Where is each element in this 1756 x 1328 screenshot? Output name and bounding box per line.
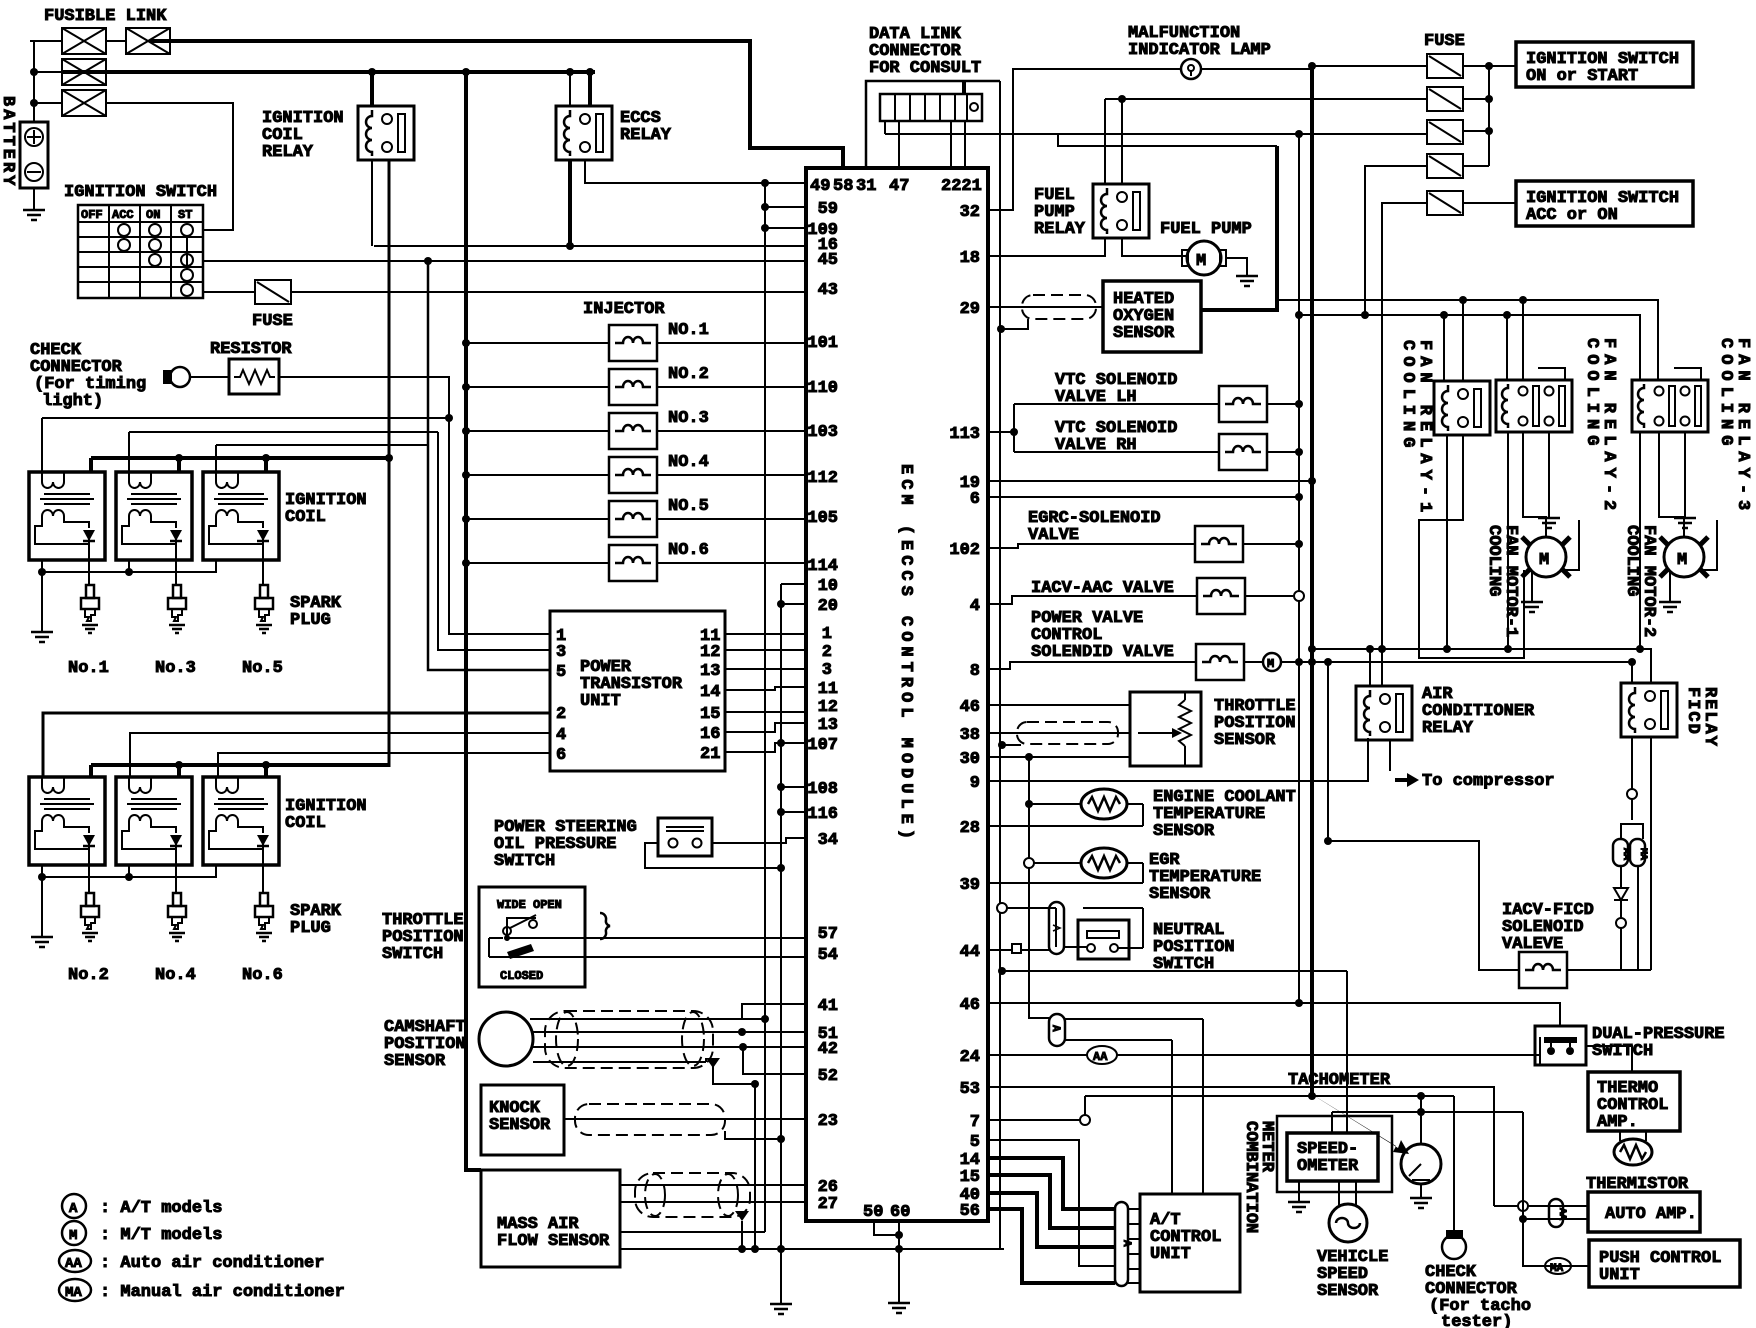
junction dots y1249 [738, 1245, 746, 1253]
VTC solenoid valve RH [1219, 434, 1267, 470]
FICD contact top from y649 [1650, 649, 1652, 683]
IACV-AAC valve [1197, 578, 1245, 614]
svg-text:4: 4 [970, 597, 980, 616]
drops from y300 [1463, 300, 1523, 381]
FICD contact bottom long [1650, 737, 1652, 970]
svg-text:112: 112 [807, 469, 838, 488]
junction coolant [1025, 800, 1033, 808]
tachometer pointer arrow [1300, 1087, 1409, 1154]
air conditioner relay [1356, 686, 1412, 740]
thermistor [1614, 1139, 1652, 1165]
svg-text:59: 59 [818, 200, 838, 219]
CF2 contact2 ground [1548, 432, 1550, 516]
x1328 riser [1327, 662, 1329, 841]
wire y300 bus [1277, 300, 1658, 381]
svg-text:24: 24 [960, 1048, 980, 1067]
split to AA/MA ovals [1621, 799, 1643, 839]
vertical x1312 bus [1310, 66, 1314, 1096]
svg-text:WIDE OPEN: WIDE OPEN [497, 898, 562, 912]
spark plug No.3 [168, 585, 186, 633]
DPS right to thermo amp [1586, 1046, 1632, 1072]
junction PS ground [777, 864, 785, 872]
junction dots injector feeds [462, 339, 470, 347]
wire y1112 speedo-thermo [1332, 1112, 1523, 1133]
svg-text:BATTERY: BATTERY [0, 96, 17, 188]
camshaft shield drain [533, 1058, 755, 1084]
wire y662 to FICD coil [1312, 661, 1632, 663]
svg-text:2: 2 [822, 643, 832, 662]
svg-text:No.3: No.3 [155, 659, 196, 678]
legend M circle [62, 1221, 86, 1245]
CF2 right loop [1538, 368, 1565, 380]
wire ECM 6 [988, 496, 1299, 498]
svg-text:7: 7 [970, 1113, 980, 1132]
wire O2 right loop up to y146 line [1201, 146, 1277, 310]
junction [1519, 1215, 1527, 1223]
cooling fan relay-3 [1632, 380, 1708, 432]
junction EGRC right [1295, 540, 1303, 548]
wire flink row1 to row2 gap [106, 40, 126, 42]
camshaft position sensor circle [479, 1012, 533, 1066]
dual-pressure switch box [1535, 1026, 1586, 1065]
malfunction indicator lamp [1181, 59, 1201, 79]
wire resistor node to PTU pin1 [449, 418, 550, 634]
shield drain triangle [706, 1058, 720, 1068]
svg-text:113: 113 [949, 425, 980, 444]
wire ECCS relay coil bottom down [568, 160, 572, 246]
svg-text:A: A [69, 1201, 78, 1217]
legend MA oval [59, 1279, 91, 1301]
CF3 contact2 ground [1684, 432, 1686, 516]
svg-text:OMETER: OMETER [1297, 1157, 1359, 1176]
svg-text:M: M [69, 1228, 77, 1244]
ground row1 coils [31, 630, 53, 642]
svg-text:47: 47 [889, 177, 909, 196]
svg-text:46: 46 [960, 996, 980, 1015]
junction x1328 [1324, 837, 1332, 845]
wire y315 bus [1299, 315, 1640, 381]
open circle auto amp wire [1518, 1201, 1528, 1211]
svg-text:A: A [1049, 1025, 1061, 1032]
svg-text:IGNITION SWITCH: IGNITION SWITCH [64, 183, 217, 202]
svg-text:5: 5 [970, 1133, 980, 1152]
motor2 ground [1669, 572, 1671, 600]
wires injector outputs to ECM pins 101-114 [657, 343, 806, 563]
svg-text:COOLING: COOLING [1398, 340, 1417, 453]
svg-text:SWITCH: SWITCH [494, 852, 555, 871]
svg-text:No.2: No.2 [68, 966, 109, 985]
wires power valve to M to x1299 [1244, 661, 1632, 663]
wire bus y72: battery row2 to relays [62, 72, 595, 106]
svg-text:COIL: COIL [285, 508, 326, 527]
wire top bus y41 row1 to ECM 58 [150, 41, 843, 168]
engine coolant temperature sensor [1081, 789, 1127, 819]
svg-text:13: 13 [700, 662, 720, 681]
junction pin19 [1308, 477, 1316, 485]
VTC right pins to x1299 [1267, 404, 1299, 452]
svg-text:tester): tester) [1441, 1313, 1512, 1328]
svg-text:MA: MA [1550, 1263, 1564, 1275]
svg-text:2: 2 [556, 705, 566, 724]
ignition coil No.6 [203, 777, 279, 865]
speedometer ground [1298, 1181, 1300, 1200]
svg-text:60: 60 [890, 1203, 910, 1222]
ECM (ECCS CONTROL MODULE) box [806, 168, 988, 1221]
svg-text:No.6: No.6 [242, 966, 283, 985]
svg-text:INJECTOR: INJECTOR [583, 300, 665, 319]
wire row2 coil grounds bus [42, 865, 217, 935]
cooling fan relay-1 [1434, 381, 1490, 435]
power transistor unit box [550, 611, 725, 771]
wires NPS [988, 908, 1143, 950]
EGRC right pin to x1299 [1243, 543, 1299, 545]
wire to check connector [1453, 1096, 1455, 1230]
wire row1 coil grounds bus [42, 560, 217, 630]
wire nest to PTU pin5 and up to pin45 wire [428, 262, 550, 670]
svg-text:SWITCH: SWITCH [382, 945, 443, 964]
speedometer to VSS wires [1339, 1181, 1356, 1205]
svg-text:METER: METER [1257, 1121, 1276, 1173]
legend AA oval [59, 1250, 91, 1272]
CF1 contact out [1419, 435, 1524, 658]
wire ECM 9 to A/C relay coil [988, 738, 1368, 781]
svg-text:No.4: No.4 [155, 966, 196, 985]
svg-text:103: 103 [807, 423, 838, 442]
junction x755 [751, 1080, 759, 1088]
svg-text:34: 34 [818, 831, 838, 850]
A/T control unit box [1140, 1194, 1240, 1292]
svg-text:18: 18 [960, 249, 980, 268]
fusible link F4 [62, 90, 106, 116]
wire pin40 route [988, 1193, 1115, 1247]
diode FICD branch [1614, 866, 1628, 918]
junction dots 108/116 [777, 783, 785, 791]
pin 20 stub [781, 603, 806, 605]
fusible link F1 [62, 28, 106, 54]
junction tach wire [1417, 1092, 1425, 1100]
wire resistor to node [279, 377, 449, 418]
AA oval on wire [1087, 1046, 1117, 1064]
fusible link F2 [126, 28, 170, 54]
legend A circle [62, 1194, 86, 1218]
DLC riser to outer frame [962, 81, 966, 94]
FICD relay [1621, 683, 1677, 737]
ignition coil No.4 [116, 777, 192, 865]
throttle position sensor box [1130, 692, 1201, 766]
ignition switch ACC or ON box [1516, 181, 1693, 226]
DLC outer frame [866, 81, 1000, 168]
svg-text:ON or START: ON or START [1526, 67, 1638, 86]
throttle position switch box [479, 887, 585, 987]
wires to auto amp [1494, 1206, 1588, 1219]
neutral position switch connector pill [1049, 902, 1064, 954]
fusible link F3 [62, 59, 106, 85]
wire pin46b to DPS [988, 1003, 1560, 1026]
junction battery col [30, 68, 38, 76]
fuse 4 [1427, 154, 1463, 178]
pin 116 stub [781, 811, 806, 813]
svg-text:30: 30 [960, 750, 980, 769]
wire injector B+ bus x466 [466, 72, 481, 1170]
thermo amp to thermistor [1620, 1131, 1646, 1141]
wire ECM 8 to power valve [988, 662, 1196, 669]
svg-text:44: 44 [960, 943, 980, 962]
wire y649 bus [1312, 649, 1651, 683]
cooling fan motor-1 [1522, 537, 1570, 577]
injector NO.2 [609, 369, 657, 405]
spark plug No.5 [255, 585, 273, 633]
wire pin5 to A/T pill [988, 1140, 1115, 1266]
svg-text:COOLING: COOLING [1622, 525, 1641, 596]
wires A oval outputs [1065, 1019, 1203, 1194]
junction pin20 [777, 600, 785, 608]
svg-text:58: 58 [833, 177, 853, 196]
svg-text:AUTO AMP.: AUTO AMP. [1605, 1205, 1697, 1224]
junction y662 [1628, 658, 1636, 666]
wire ECM 29 to O2 sensor [988, 306, 1103, 308]
svg-text:UNIT: UNIT [1599, 1266, 1640, 1285]
ECM right pin labels [949, 203, 980, 1221]
svg-text:53: 53 [960, 1080, 980, 1099]
svg-text:107: 107 [807, 736, 838, 755]
wire pin15 route [988, 1175, 1115, 1228]
CF3 contact1 to motor2 [1659, 432, 1684, 537]
svg-text:56: 56 [960, 1202, 980, 1221]
ignition coil No.5 [203, 472, 279, 560]
wire ECM 19 [988, 480, 1312, 482]
junction on 45 wire [424, 257, 432, 265]
svg-text:FUSIBLE LINK: FUSIBLE LINK [44, 7, 167, 26]
svg-text:46: 46 [960, 698, 980, 717]
wire ignition switch to ECM 45 [203, 260, 806, 262]
injector NO.5 [609, 501, 657, 537]
junction dots VTC right [1295, 400, 1303, 408]
svg-text:14: 14 [700, 683, 720, 702]
svg-text:110: 110 [807, 379, 838, 398]
svg-text:SENSOR: SENSOR [1214, 731, 1276, 750]
wire ign coil B+ vertical bus x389 [388, 160, 391, 767]
fuel pump ground [1226, 258, 1247, 274]
CF2 coil bottom [1507, 432, 1509, 649]
svg-text:FUEL PUMP: FUEL PUMP [1160, 220, 1252, 239]
pin 109 stub [765, 227, 806, 229]
DLC drop to y134 bus [884, 121, 886, 134]
wires IACV-FICD [1328, 841, 1651, 970]
svg-text:101: 101 [807, 334, 838, 353]
wires PTU pins 2,4,6 to row2 coil triggers [43, 713, 550, 777]
wires coil row1 trigger nest [42, 418, 449, 472]
svg-text:116: 116 [807, 805, 838, 824]
ignition switch table [78, 205, 203, 298]
svg-text:No.1: No.1 [68, 659, 109, 678]
injector NO.6 [609, 545, 657, 581]
svg-text:6: 6 [970, 490, 980, 509]
svg-text:PLUG: PLUG [290, 611, 331, 630]
svg-text:8: 8 [970, 662, 980, 681]
svg-text:ACC or ON: ACC or ON [1526, 206, 1618, 225]
cooling fan motor-2 [1660, 537, 1708, 577]
svg-text:ECM (ECCS CONTROL MODULE): ECM (ECCS CONTROL MODULE) [896, 464, 915, 844]
wire switch-fuse-ECM 43 [203, 288, 806, 292]
A/T pill connector [1115, 1202, 1132, 1286]
check connector tacho symbol [1442, 1230, 1466, 1259]
svg-text:57: 57 [818, 925, 838, 944]
svg-text:NO.1: NO.1 [668, 321, 709, 340]
open circle NPS [997, 903, 1007, 913]
svg-text:No.5: No.5 [242, 659, 283, 678]
vertical x1299 ignition feed bus [1298, 134, 1300, 1003]
svg-text:AA: AA [65, 1256, 82, 1272]
wire diode outputs to spark plugs row1 [89, 560, 263, 585]
junction dots x1002/x1029 [998, 741, 1006, 749]
svg-text:M: M [1539, 551, 1549, 570]
svg-text:MA: MA [65, 1285, 82, 1301]
svg-text:: M/T models: : M/T models [100, 1226, 222, 1245]
svg-text:11: 11 [818, 680, 838, 699]
wire knock sensor to ECM 23 [564, 1118, 806, 1120]
svg-text:45: 45 [818, 251, 838, 270]
power steering oil pressure switch box [658, 818, 712, 856]
svg-text:NO.2: NO.2 [668, 365, 709, 384]
CF3 coil bottom [1639, 432, 1641, 649]
motor2 right loop [1702, 520, 1717, 570]
svg-text:CLOSED: CLOSED [500, 969, 543, 983]
ignition coil No.3 [116, 472, 192, 560]
battery symbol [20, 122, 48, 188]
wire ECM 52 to camshaft node [743, 1047, 806, 1074]
svg-text:A: A [1120, 1240, 1132, 1247]
ignition switch ON or START box [1516, 42, 1693, 87]
wires MAF to ECM 26,27 [620, 1185, 806, 1202]
svg-text:SENSOR: SENSOR [384, 1052, 446, 1071]
svg-text:15: 15 [700, 705, 720, 724]
svg-text:27: 27 [818, 1195, 838, 1214]
motor1 ground [1531, 572, 1533, 600]
vertical x781 bus [780, 584, 782, 1302]
vertical x1001 DLC/shield bus [999, 81, 1001, 1249]
pin 108 stub [781, 786, 806, 788]
junction dots 50/60 [895, 1231, 903, 1239]
cooling fan relay-2 [1496, 380, 1572, 432]
shielded cable MAF (dashed) [635, 1173, 750, 1217]
vertical x1029 sensor bus [1029, 757, 1049, 1018]
FP relay top pins [1105, 99, 1122, 184]
tachometer ground [1420, 1184, 1422, 1196]
AA vertical oval connector [1549, 1199, 1567, 1227]
junction y1112 [1417, 1108, 1425, 1116]
open circle IACV-AAC [1294, 591, 1304, 601]
svg-text:COIL: COIL [285, 814, 326, 833]
wire coil row2 B+ bus y765 [91, 765, 389, 777]
arrow to compressor [1395, 773, 1419, 787]
svg-text:15: 15 [960, 1168, 980, 1187]
junction dots y649 [1308, 645, 1316, 653]
svg-text:SENSOR: SENSOR [489, 1116, 551, 1135]
svg-text:13: 13 [818, 716, 838, 735]
A/T pill stubs to box [1128, 1209, 1140, 1283]
camshaft sensor wires to ECM 41,51,42 [530, 1004, 806, 1047]
injector NO.4 [609, 457, 657, 493]
CF3 contact feed from y300 [1657, 300, 1659, 381]
svg-text:3: 3 [822, 661, 832, 680]
junction dots row2 B+ [175, 761, 183, 769]
EGR temperature sensor [1081, 848, 1127, 878]
svg-text:FUSE: FUSE [252, 312, 293, 331]
wire x1002 bottom junctions [998, 967, 1006, 975]
open circle below diode [1616, 918, 1626, 928]
svg-text:FAN RELAY-2: FAN RELAY-2 [1599, 338, 1618, 516]
ground row2 coils [31, 935, 53, 947]
svg-text:VALVE: VALVE [1028, 526, 1079, 545]
wire pin32 up to lamp [988, 69, 1181, 210]
speedometer box [1287, 1133, 1378, 1181]
ground x781 [780, 1249, 782, 1302]
wire x1523 to push control [1523, 1112, 1589, 1266]
svg-text:M: M [1677, 551, 1687, 570]
curly hook right of TPS switch [600, 913, 610, 939]
svg-text:FAN MOTOR-1: FAN MOTOR-1 [1501, 525, 1520, 637]
wire FP relay contact to fuel pump [1122, 238, 1186, 256]
motor M small power valve [1263, 653, 1281, 671]
tachometer gauge [1401, 1144, 1441, 1184]
wire fuse5 to ACC box [1463, 202, 1516, 204]
DLC pin drops to ECM top [899, 121, 965, 168]
junction dots camshaft wires [761, 1015, 769, 1023]
wire TPS switch to ECM 54 [507, 956, 806, 958]
vertical x755 drain bus [754, 1084, 756, 1249]
A oval connector [1049, 1014, 1065, 1046]
ECM pins 50/60 stubs [874, 1221, 899, 1301]
svg-text:FAN RELAY-3: FAN RELAY-3 [1733, 338, 1752, 516]
wire coil row1 B+ bus y458 [91, 458, 389, 472]
svg-text:M: M [1196, 252, 1206, 271]
fuse below ignition switch [255, 280, 291, 304]
svg-text:AA: AA [1093, 1050, 1108, 1064]
pin 10 stub [781, 583, 806, 585]
wire check connector to resistor [190, 376, 229, 378]
mass air flow sensor box [481, 1170, 620, 1267]
drop to FICD coil [1631, 662, 1633, 683]
wire ECM 102 to EGRC valve [988, 544, 1195, 548]
svg-text:RELAY: RELAY [1700, 687, 1719, 748]
wire ECM 18 to FP relay coil [988, 238, 1105, 256]
CF1 coil bottom to y649 [1446, 435, 1448, 649]
svg-text:NO.3: NO.3 [668, 409, 709, 428]
MAF shield drain [741, 1221, 743, 1249]
junction dots row1 gnd bus [38, 568, 46, 576]
svg-text:UNIT: UNIT [1150, 1245, 1191, 1264]
svg-text:NO.5: NO.5 [668, 497, 709, 516]
tachometer feed [1420, 1096, 1422, 1144]
svg-text:49: 49 [810, 177, 830, 196]
svg-text:FICD: FICD [1683, 687, 1702, 736]
svg-text:RELAY: RELAY [620, 126, 672, 145]
fuel pump relay [1093, 184, 1149, 238]
wires PTU right pins to ECM 1,2,3,11,12,13,107 [725, 634, 806, 752]
wire fuse5 left to AC relay contact [1382, 203, 1427, 686]
wire TPS switch to ECM 57 [507, 918, 806, 938]
push control unit box [1589, 1240, 1740, 1287]
wire ECM 38 to TPS wiper [988, 732, 1130, 734]
svg-text:COOLING: COOLING [1484, 525, 1503, 596]
open square NPS wire [1012, 944, 1021, 953]
svg-text:RELAY: RELAY [1422, 719, 1474, 738]
open circle pin7 [1080, 1115, 1090, 1125]
svg-text:54: 54 [818, 946, 838, 965]
svg-text:114: 114 [807, 557, 838, 576]
svg-text:4: 4 [556, 726, 566, 745]
junction O2 drain [997, 325, 1005, 333]
